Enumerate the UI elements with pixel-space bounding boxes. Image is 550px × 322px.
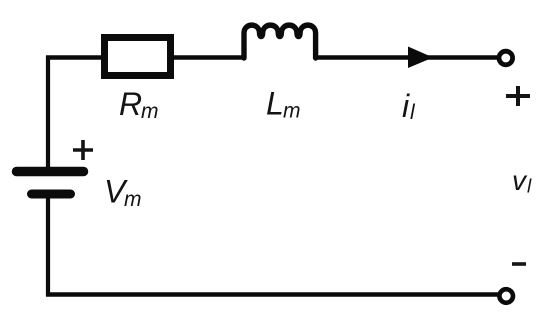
label Vm	[104, 174, 142, 212]
terminal node bottom-right	[499, 289, 513, 303]
plus sign battery	[73, 140, 93, 160]
label Lm	[266, 86, 301, 123]
svg-text:m: m	[124, 188, 142, 211]
svg-text:l: l	[527, 177, 532, 198]
label vl	[512, 165, 532, 198]
inductor Lm coil	[244, 25, 316, 58]
wire resistor to inductor	[174, 55, 245, 60]
svg-text:v: v	[512, 165, 528, 196]
svg-text:i: i	[402, 88, 410, 124]
svg-text:m: m	[283, 100, 301, 123]
battery Vm positive plate	[17, 167, 84, 177]
battery Vm negative plate	[32, 190, 71, 199]
plus sign port	[506, 86, 530, 106]
resistor Rm body	[105, 38, 171, 76]
svg-text:l: l	[410, 101, 416, 124]
terminal node top-right	[499, 51, 513, 65]
label Rm	[119, 86, 159, 123]
wire left vertical upper	[46, 56, 50, 169]
wire top-left horizontal	[46, 55, 103, 60]
wire inductor to terminal with current arrow	[314, 55, 497, 59]
wire bottom horizontal	[46, 292, 498, 296]
minus sign port	[512, 262, 526, 266]
svg-text:m: m	[141, 100, 159, 123]
svg-text:L: L	[266, 86, 284, 122]
svg-text:R: R	[119, 86, 142, 122]
wire left vertical lower	[46, 198, 50, 297]
current arrowhead il	[408, 47, 433, 69]
label il	[402, 88, 416, 124]
